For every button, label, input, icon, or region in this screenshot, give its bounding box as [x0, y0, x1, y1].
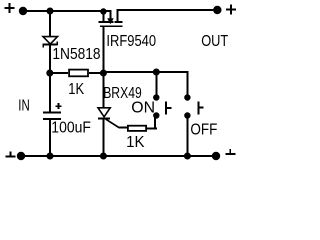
SCR Q2 gate diagonal lead	[106, 119, 119, 127]
pushbutton S1 ON bottom contact	[153, 112, 159, 118]
svg-text:1K: 1K	[68, 81, 84, 99]
wire diode anode lead	[49, 11, 51, 37]
wire resistor R1 right lead	[89, 72, 103, 74]
wire MOSFET gate lead down	[102, 27, 104, 73]
pushbutton S1 ON top contact	[153, 94, 159, 100]
node input - terminal dot	[17, 152, 25, 160]
resistor R1 1K body	[69, 70, 88, 77]
svg-text:1K: 1K	[126, 134, 145, 152]
node minus terminal symbol bottom left	[6, 152, 16, 158]
resistor R2 1K body	[128, 126, 146, 131]
pushbutton S2 OFF bottom contact	[184, 112, 190, 118]
MOSFET Q1 body arrow	[107, 18, 114, 24]
svg-text:1N5818: 1N5818	[52, 45, 100, 63]
MOSFET Q1 drain contact bar	[114, 21, 122, 23]
node OUT + terminal dot	[213, 6, 221, 14]
SCR Q2 cathode bar	[98, 118, 110, 120]
MOSFET Q1 body contact bar	[107, 21, 113, 23]
MOSFET Q1 IRF9540 source dot junction	[100, 8, 106, 14]
svg-text:IN: IN	[18, 96, 29, 114]
svg-text:100uF: 100uF	[51, 119, 91, 137]
wire resistor R2 right lead	[147, 127, 157, 129]
node junction dot diode/cap/resistor	[46, 70, 53, 77]
wire bottom rail	[21, 155, 216, 157]
node junction dot capacitor bottom	[47, 153, 54, 160]
node junction dot ON button feed	[153, 69, 160, 76]
capacitor C1 bottom plate	[43, 118, 61, 120]
pushbutton S2 OFF top contact	[184, 94, 190, 100]
svg-text:ON: ON	[131, 99, 155, 116]
capacitor C1 100uF plus sign	[56, 103, 62, 109]
wire SCR cathode lead to bottom rail	[102, 120, 104, 157]
node junction dot SCR cathode bottom	[100, 153, 107, 160]
wire MOSFET source stub and body corner	[103, 10, 111, 19]
node junction dot OFF button bottom	[184, 153, 191, 160]
node junction dot MOSFET gate / SCR anode	[100, 70, 107, 77]
wire capacitor top lead	[49, 73, 51, 112]
wire top rail right (drain to OUT terminal)	[117, 9, 218, 11]
capacitor C1 top plate	[43, 112, 61, 114]
wire OFF button top lead corner	[186, 71, 188, 95]
node + (output positive terminal symbol)	[226, 5, 236, 15]
svg-text:OUT: OUT	[201, 33, 228, 51]
wire top rail left (from + terminal to MOSFET source)	[23, 10, 110, 12]
wire resistor R1 left lead	[50, 72, 68, 74]
wire up to ON button bottom contact	[154, 118, 156, 130]
MOSFET Q1 gate plate bar	[100, 25, 123, 27]
wire feed to pushbuttons	[103, 71, 188, 73]
node junction dot top of diode	[47, 8, 54, 15]
node + (input positive terminal symbol)	[5, 3, 15, 13]
wire MOSFET source lead	[102, 12, 104, 22]
svg-text:OFF: OFF	[190, 122, 217, 139]
node input + terminal dot	[19, 7, 27, 15]
pushbutton S1 ON actuator	[165, 102, 171, 115]
pushbutton S2 OFF actuator	[197, 102, 203, 115]
wire SCR anode lead	[102, 73, 104, 108]
node output - terminal dot	[212, 152, 220, 160]
wire MOSFET drain lead up	[117, 9, 119, 21]
diode D1 1N5818 schottky	[42, 37, 58, 48]
MOSFET Q1 source contact bar	[99, 21, 107, 23]
wire capacitor bottom lead	[49, 120, 51, 157]
svg-text:IRF9540: IRF9540	[106, 33, 156, 51]
node minus terminal symbol bottom right	[226, 149, 236, 155]
wire SCR gate to resistor R2	[119, 127, 128, 129]
wire diode cathode to resistor row	[49, 46, 51, 74]
wire ON button top lead	[155, 72, 157, 96]
SCR Q2 BRX49 triangle	[98, 108, 110, 117]
wire OFF button bottom lead to ground rail	[186, 116, 188, 157]
